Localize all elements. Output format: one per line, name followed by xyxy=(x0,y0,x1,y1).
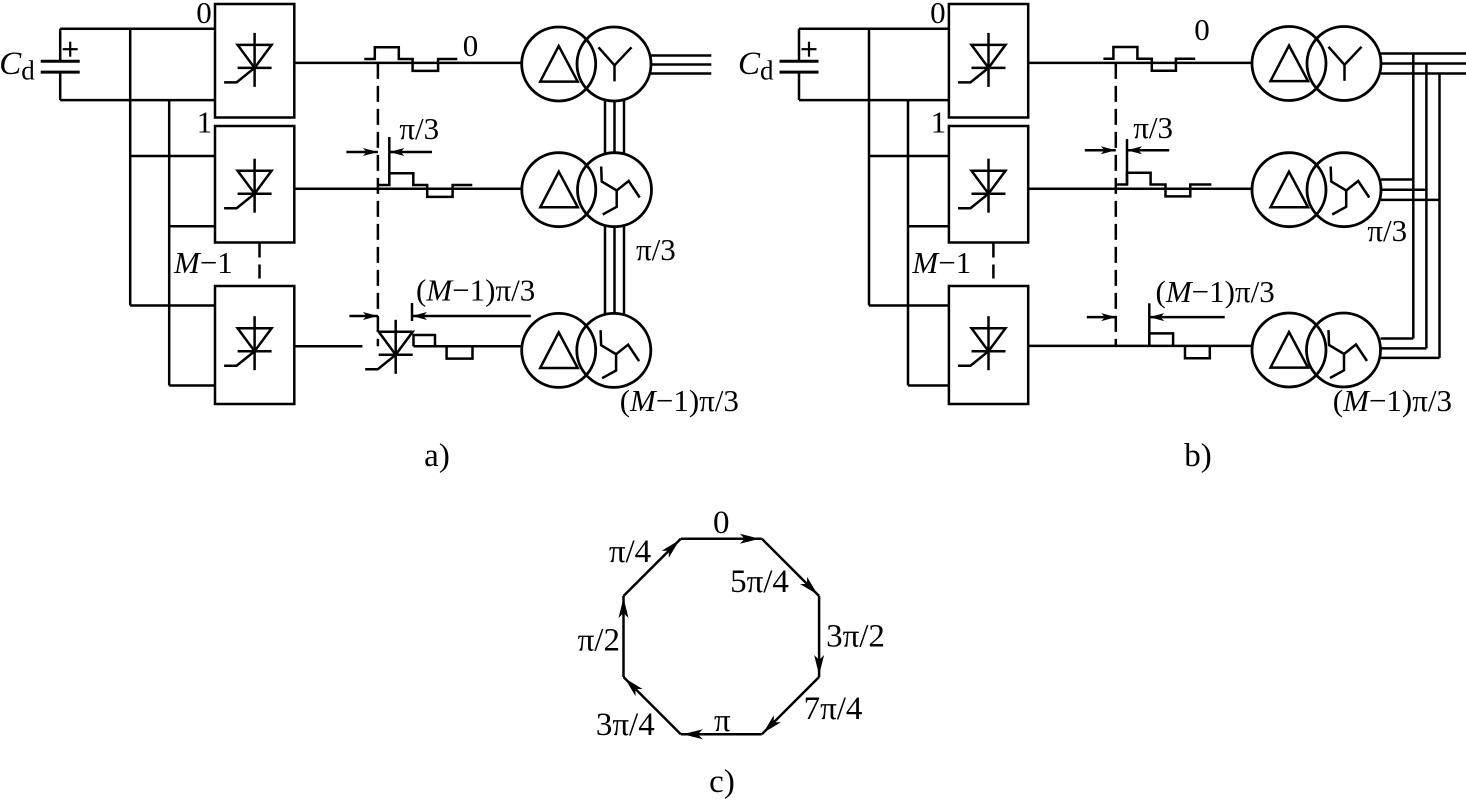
svg-text:1: 1 xyxy=(197,104,213,139)
svg-text:π/4: π/4 xyxy=(609,534,651,570)
svg-text:d: d xyxy=(760,56,774,86)
wire tap DC- to cell M-1 (a) xyxy=(169,384,215,387)
octagon edge pi/2 left with arrow xyxy=(619,596,629,677)
transformer T3 (b) primary circle xyxy=(1252,313,1326,387)
wye winding symbol T1 (a) xyxy=(599,47,632,81)
tick mark pulse start row 3 (a) xyxy=(411,303,414,321)
label Cd (b) xyxy=(738,46,774,86)
pulse waveform row 1 (a) xyxy=(364,47,457,71)
wire DC+ top rail (b) xyxy=(799,27,949,30)
wire DC- vertical bus (b) xyxy=(907,100,910,385)
pulse waveform row 2 (b) xyxy=(1117,173,1211,197)
svg-text:3π/2: 3π/2 xyxy=(826,619,885,655)
svg-text:π/3: π/3 xyxy=(1133,110,1173,145)
delta winding symbol T3 (a) xyxy=(540,332,578,368)
octagon edge 7pi/4 lower-right with arrow xyxy=(762,677,819,734)
wire tap DC- to cell 1 (b) xyxy=(908,225,949,228)
inverter cell M-1 box (a) xyxy=(215,286,294,404)
wire tap DC- to cell 1 (a) xyxy=(169,225,215,228)
dashed continuation between cells (b) xyxy=(992,244,995,286)
wire DC- bottom rail (a) xyxy=(60,99,215,102)
capacitor Cd (b) xyxy=(780,29,819,100)
inverter cell 0 box (a) xyxy=(215,4,294,118)
output bus vertical line 2 (b) xyxy=(1425,64,1428,349)
dimension arrows pi/3 row 2 (a) xyxy=(346,148,432,156)
T1 output lines three-phase (a) xyxy=(651,56,712,74)
zigzag winding symbol T2 (b) xyxy=(1331,167,1370,215)
transformer T3 (b) secondary circle xyxy=(1307,313,1381,387)
dimension arrows pi/3 row 2 (b) xyxy=(1085,146,1169,154)
transformer T1 (a) secondary circle xyxy=(577,27,651,101)
svg-text:1: 1 xyxy=(931,104,947,139)
svg-text:0: 0 xyxy=(1194,12,1210,47)
phase reference dashed line (a) xyxy=(377,63,380,346)
pulse waveform row 2 (a) xyxy=(378,173,472,197)
delta winding symbol T3 (b) xyxy=(1271,332,1309,368)
transformer T1 (a) primary circle xyxy=(522,27,596,101)
output bus vertical line 1 (b) xyxy=(1412,54,1415,339)
delta winding symbol T2 (b) xyxy=(1271,172,1309,208)
wire inverter 0 output (a) xyxy=(294,62,522,65)
wire DC- bottom rail (b) xyxy=(799,99,949,102)
thyristor symbol in cell 1 (a) xyxy=(224,159,272,213)
wye winding symbol T1 (b) xyxy=(1329,47,1362,81)
transformer T3 (a) secondary circle xyxy=(577,313,651,387)
dimension arrows (M-1)pi/3 row 3 (b) xyxy=(1087,313,1225,321)
T1 output lines three-phase (b) xyxy=(1381,54,1466,74)
svg-text:a): a) xyxy=(424,438,450,474)
wire DC+ vertical bus (b) xyxy=(868,29,871,306)
pulse waveform row 3 (b) xyxy=(1149,333,1210,358)
svg-text:C: C xyxy=(0,46,22,82)
tick mark pulse start row 3 (b) xyxy=(1148,303,1151,346)
tick mark pulse start row 2 (a) xyxy=(388,137,391,185)
thyristor on output wire row 3 (a) xyxy=(365,320,413,374)
delta winding symbol T1 (b) xyxy=(1271,46,1309,82)
svg-text:0: 0 xyxy=(930,0,946,30)
wire inverter M-1 output (b) xyxy=(1028,345,1252,348)
transformer T2 (a) secondary circle xyxy=(578,153,652,227)
thyristor symbol in cell 0 (b) xyxy=(958,33,1006,87)
svg-text:3π/4: 3π/4 xyxy=(596,707,655,743)
inverter cell M-1 box (b) xyxy=(949,286,1028,404)
wire inverter 0 output (b) xyxy=(1028,62,1252,65)
T2 output lines three-phase (b) xyxy=(1381,180,1440,200)
wire inverter M-1 output right segment (a) xyxy=(414,345,522,348)
pulse waveform row 1 (b) xyxy=(1103,47,1195,71)
phase reference dashed line (b) xyxy=(1115,63,1118,346)
thyristor symbol in cell 1 (b) xyxy=(958,159,1006,213)
thyristor symbol in cell 0 (a) xyxy=(224,33,272,87)
svg-text:d: d xyxy=(21,56,35,86)
zigzag winding symbol T3 (b) xyxy=(1329,330,1368,378)
wire tap DC- to cell M-1 (b) xyxy=(908,384,949,387)
wire DC- vertical bus (a) xyxy=(168,100,171,385)
inverter cell 0 box (b) xyxy=(949,4,1028,118)
thyristor symbol in cell M-1 (b) xyxy=(958,316,1006,370)
delta winding symbol T2 (a) xyxy=(540,172,578,208)
svg-text:b): b) xyxy=(1184,438,1212,474)
plus polarity mark (a) xyxy=(63,42,78,57)
octagon edge pi/4 upper-left with arrow xyxy=(624,539,681,596)
svg-text:0: 0 xyxy=(713,505,730,541)
secondary series link T2-T3 three lines (a) xyxy=(605,226,624,315)
dimension arrows (M-1)pi/3 row 3 (a) xyxy=(349,312,530,320)
octagon edge 3pi/4 lower-left with arrow xyxy=(624,677,681,734)
label Cd (a) xyxy=(0,46,35,86)
octagon edge 0 top with arrow xyxy=(681,534,762,544)
wire tap DC+ to cell M-1 (a) xyxy=(130,304,215,307)
svg-text:π/3: π/3 xyxy=(399,111,439,146)
octagon edge 3pi/2 right with arrow xyxy=(814,596,824,677)
plus polarity mark (b) xyxy=(802,42,817,57)
transformer T2 (b) secondary circle xyxy=(1307,153,1381,227)
octagon edge pi bottom with arrow xyxy=(681,729,762,739)
svg-text:0: 0 xyxy=(196,0,212,30)
tick mark pulse start row 2 (b) xyxy=(1126,139,1129,184)
svg-text:5π/4: 5π/4 xyxy=(730,564,789,600)
transformer T1 (b) secondary circle xyxy=(1307,27,1381,101)
transformer T3 (a) primary circle xyxy=(522,313,596,387)
svg-text:π/2: π/2 xyxy=(578,623,620,659)
svg-text:c): c) xyxy=(709,764,735,800)
wire DC+ vertical bus (a) xyxy=(129,29,132,306)
svg-text:(M−1)π/3: (M−1)π/3 xyxy=(620,383,739,418)
svg-text:π/3: π/3 xyxy=(636,232,676,267)
transformer T1 (b) primary circle xyxy=(1252,27,1326,101)
output bus vertical line 3 (b) xyxy=(1438,74,1441,358)
svg-text:(M−1)π/3: (M−1)π/3 xyxy=(416,273,535,308)
wire DC+ top rail (a) xyxy=(60,27,215,30)
svg-text:π/3: π/3 xyxy=(1367,213,1407,248)
svg-text:7π/4: 7π/4 xyxy=(804,691,863,727)
inverter cell 1 box (b) xyxy=(949,126,1028,243)
wire tap DC+ to cell 1 (a) xyxy=(130,155,215,158)
secondary series link T1-T2 three lines (a) xyxy=(605,100,624,153)
svg-text:0: 0 xyxy=(463,28,479,63)
capacitor Cd (a) xyxy=(41,29,80,100)
svg-text:M−1: M−1 xyxy=(911,245,971,280)
svg-text:π: π xyxy=(714,703,731,739)
transformer T2 (a) primary circle xyxy=(522,153,596,227)
wire inverter 1 output (a) xyxy=(294,187,522,190)
zigzag winding symbol T2 (a) xyxy=(601,167,640,215)
wire tap DC+ to cell 1 (b) xyxy=(869,155,949,158)
svg-text:C: C xyxy=(738,46,761,82)
thyristor symbol in cell M-1 (a) xyxy=(224,316,272,370)
wire tap DC+ to cell M-1 (b) xyxy=(869,304,949,307)
dashed continuation between cells (a) xyxy=(258,244,261,286)
svg-text:M−1: M−1 xyxy=(173,245,233,280)
octagon edge 5pi/4 upper-right with arrow xyxy=(762,539,819,596)
inverter cell 1 box (a) xyxy=(215,126,294,243)
wire inverter 1 output (b) xyxy=(1028,187,1252,190)
pulse waveform row 3 (a) xyxy=(414,335,473,359)
svg-text:(M−1)π/3: (M−1)π/3 xyxy=(1156,274,1275,309)
zigzag winding symbol T3 (a) xyxy=(601,330,640,378)
wire inverter M-1 output left segment (a) xyxy=(294,345,362,348)
svg-text:(M−1)π/3: (M−1)π/3 xyxy=(1333,383,1452,418)
delta winding symbol T1 (a) xyxy=(540,46,578,82)
transformer T2 (b) primary circle xyxy=(1252,153,1326,227)
T3 output lines three-phase (b) xyxy=(1381,339,1440,358)
